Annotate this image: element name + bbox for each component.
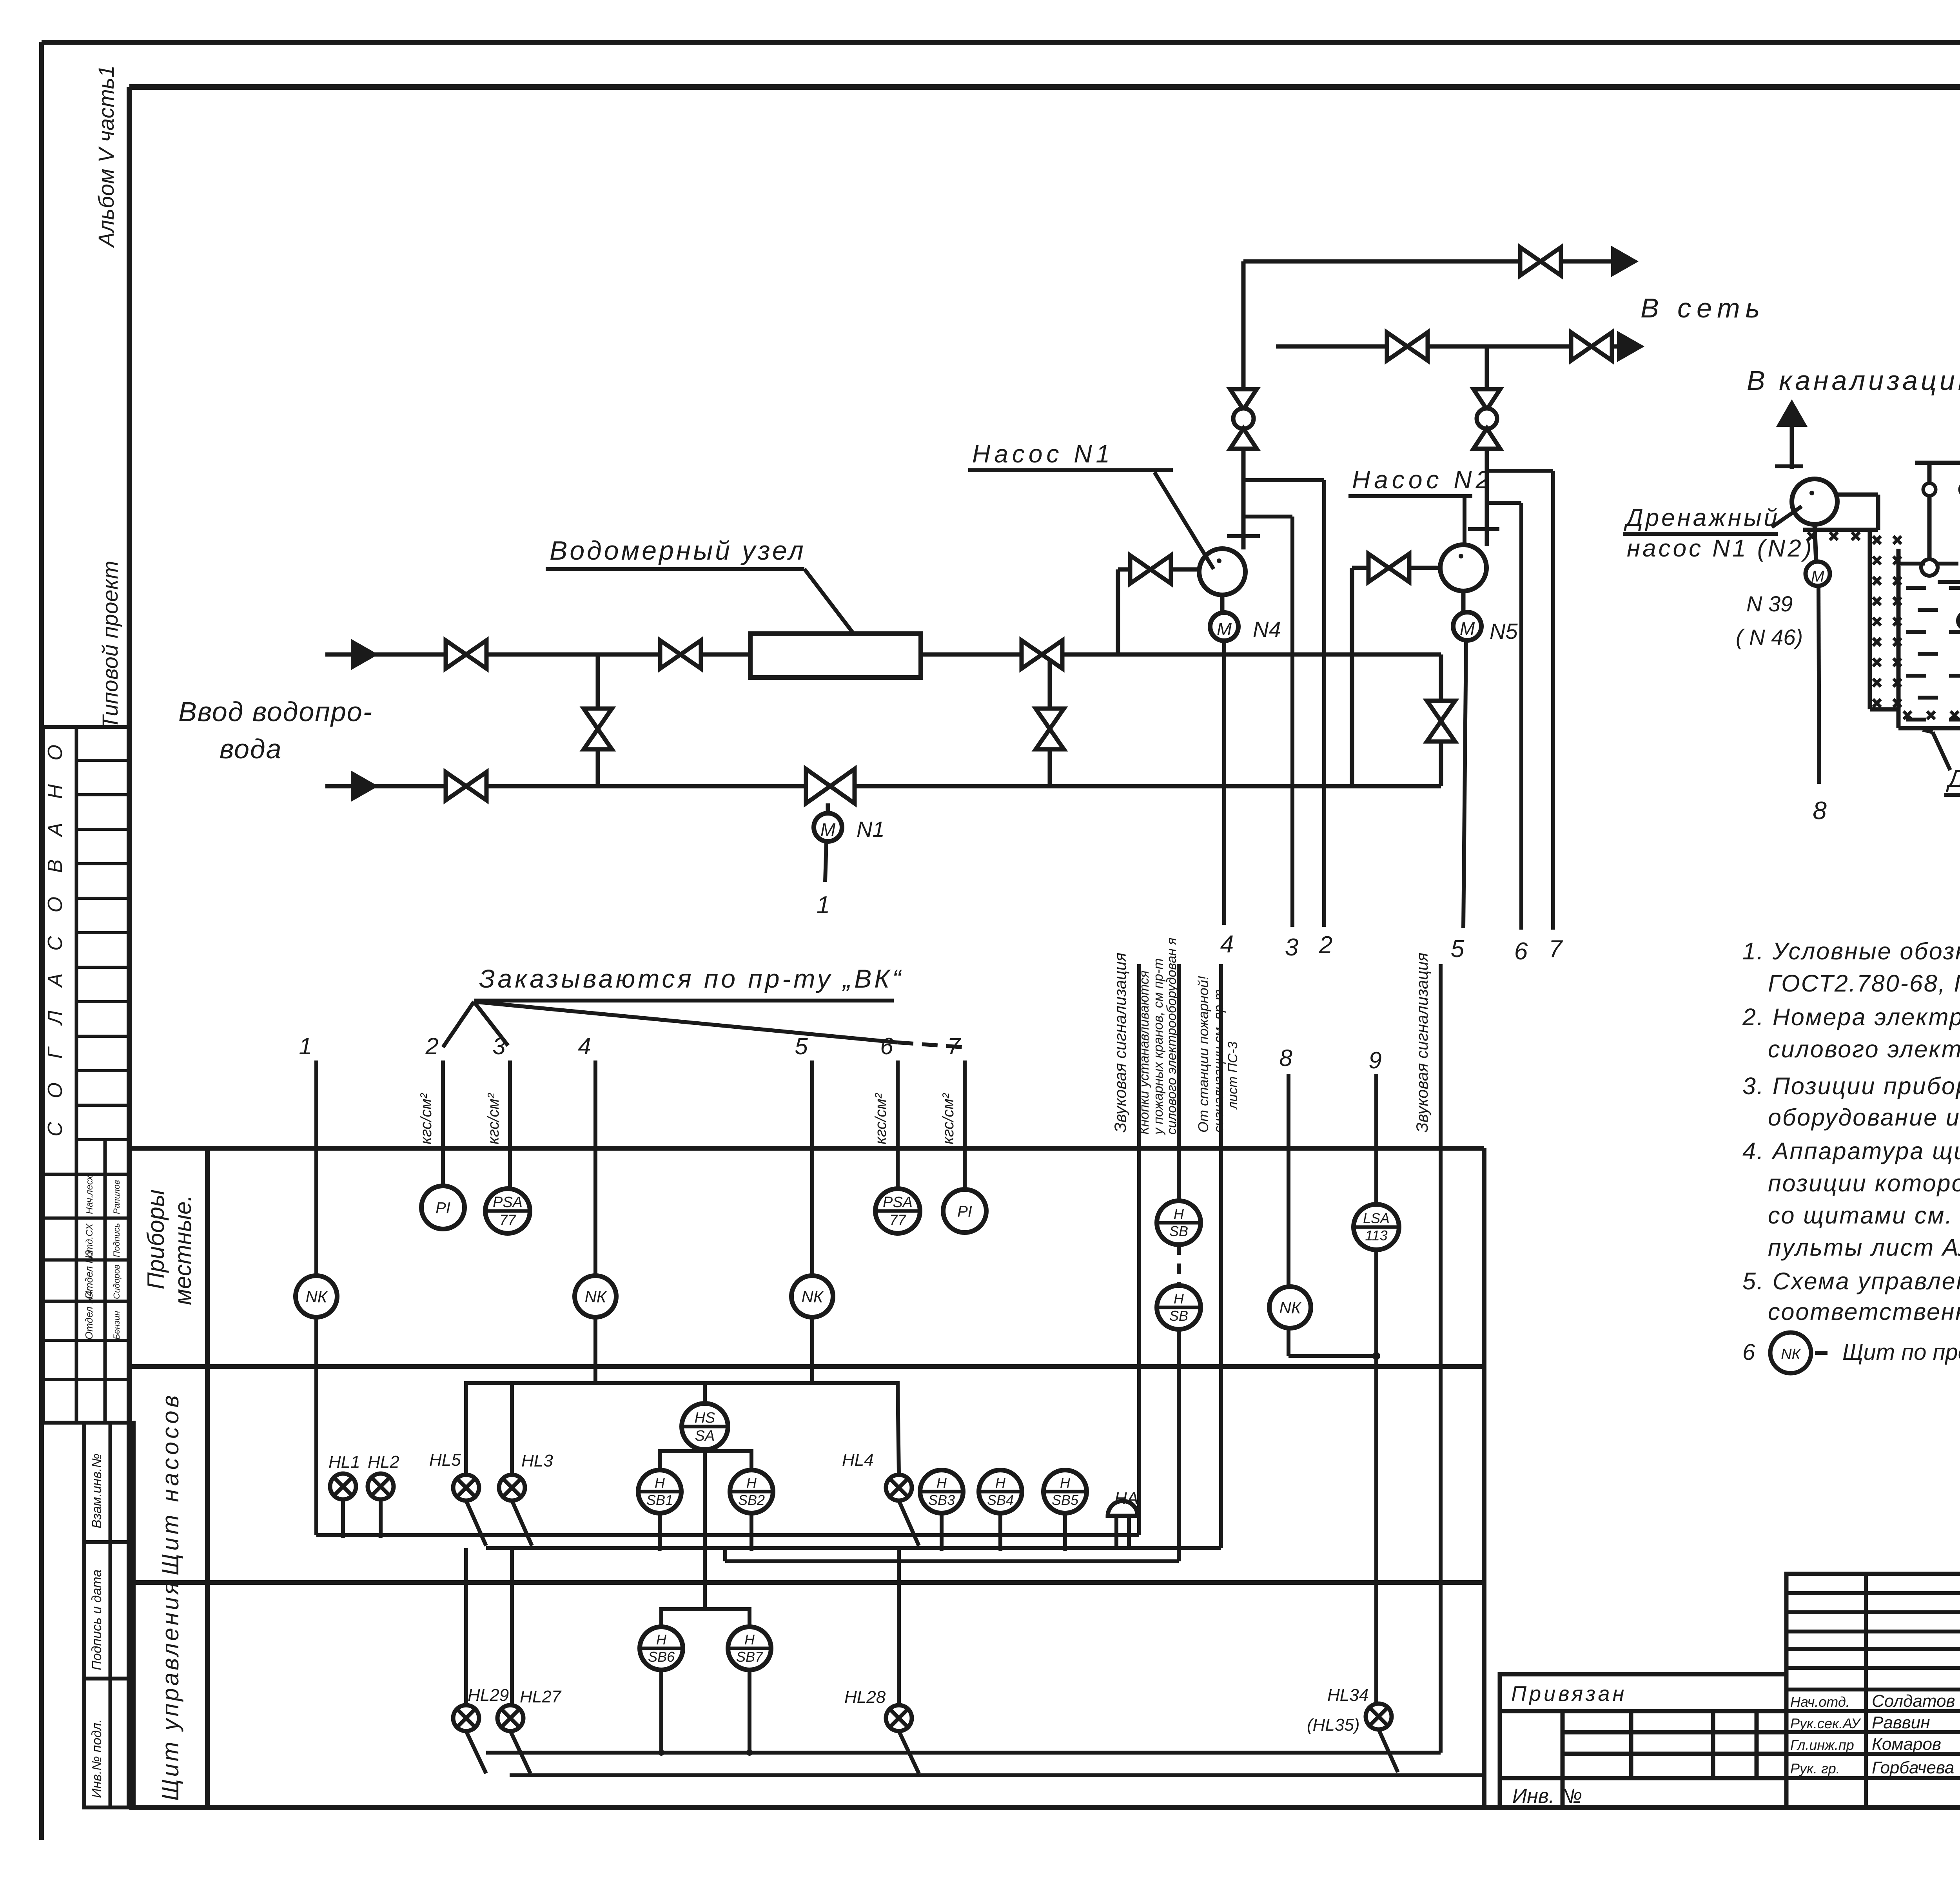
svg-text:6: 6	[1514, 938, 1528, 965]
svg-text:3: 3	[1285, 934, 1298, 961]
svg-text:Щит по проекту силового эл: Щит по проекту силового электрооборудова…	[1842, 1340, 1960, 1365]
svg-text:5. Схема управления дренажны: 5. Схема управления дренажным насосом N1…	[1742, 1268, 1960, 1294]
svg-text:кгс/см²: кгс/см²	[417, 1093, 435, 1144]
svg-text:SB4: SB4	[987, 1492, 1014, 1508]
svg-text:Сидоров: Сидоров	[112, 1265, 122, 1299]
svg-text:M: M	[1811, 568, 1824, 585]
svg-text:Солдатов: Солдатов	[1872, 1691, 1955, 1711]
svg-text:H: H	[656, 1632, 667, 1648]
svg-text:SB6: SB6	[648, 1649, 675, 1665]
svg-text:Звуковая сигнализация: Звуковая сигнализация	[1111, 953, 1129, 1133]
svg-text:Отдел N4: Отдел N4	[83, 1291, 95, 1340]
svg-text:SB7: SB7	[736, 1649, 764, 1665]
svg-text:HL34: HL34	[1327, 1686, 1368, 1705]
svg-text:3: 3	[492, 1033, 505, 1059]
svg-text:В сеть: В сеть	[1641, 293, 1765, 323]
svg-text:Насос N1: Насос N1	[972, 440, 1114, 468]
svg-text:H: H	[746, 1475, 757, 1491]
svg-text:( N 46): ( N 46)	[1736, 625, 1803, 649]
svg-text:Нач.отд.: Нач.отд.	[1790, 1694, 1850, 1710]
svg-text:LSA: LSA	[1363, 1210, 1390, 1226]
svg-text:позиции которой не указаны,: позиции которой не указаны, поставляется…	[1768, 1170, 1960, 1196]
svg-text:PSA: PSA	[883, 1194, 913, 1211]
svg-text:2. Номера электроприводов да: 2. Номера электроприводов даны в соответ…	[1742, 1004, 1960, 1030]
svg-text:SB1: SB1	[646, 1492, 673, 1508]
svg-text:Взам.инв.№: Взам.инв.№	[89, 1454, 104, 1528]
svg-text:Приборы: Приборы	[143, 1189, 169, 1289]
svg-text:4: 4	[1220, 931, 1234, 958]
svg-text:Ввод водопро-: Ввод водопро-	[178, 696, 373, 727]
svg-text:Заказываются по пр-ту „ВК“: Заказываются по пр-ту „ВК“	[479, 964, 904, 993]
svg-text:HL1: HL1	[328, 1452, 360, 1472]
svg-text:1: 1	[299, 1033, 312, 1059]
svg-text:H: H	[1060, 1475, 1071, 1491]
svg-text:со щитами см. сводную спец: со щитами см. сводную спецификацию на щи…	[1768, 1202, 1960, 1229]
svg-text:вода: вода	[220, 734, 282, 764]
svg-text:SB: SB	[1169, 1308, 1188, 1324]
svg-text:HL29: HL29	[468, 1686, 509, 1705]
svg-text:PI: PI	[957, 1203, 972, 1220]
svg-text:H: H	[1174, 1206, 1184, 1222]
svg-text:Рапилов: Рапилов	[112, 1180, 122, 1214]
svg-text:Горбачева: Горбачева	[1872, 1758, 1954, 1777]
svg-text:NК: NК	[305, 1287, 328, 1306]
svg-text:H: H	[1174, 1291, 1184, 1307]
svg-text:HL28: HL28	[844, 1688, 886, 1707]
svg-text:4: 4	[578, 1033, 591, 1059]
svg-text:В канализацию: В канализацию	[1747, 365, 1960, 396]
svg-text:M: M	[1460, 618, 1475, 639]
svg-text:кгс/см²: кгс/см²	[872, 1093, 889, 1144]
svg-text:Щит насосов: Щит насосов	[157, 1392, 183, 1575]
svg-text:силового электрооборудования: силового электрооборудования .	[1768, 1036, 1960, 1062]
svg-text:Типовой проект: Типовой проект	[98, 561, 122, 729]
svg-text:HL3: HL3	[521, 1451, 553, 1470]
svg-text:Комаров: Комаров	[1872, 1735, 1941, 1754]
svg-text:PSA: PSA	[493, 1194, 523, 1211]
svg-text:Гл.инж.пр: Гл.инж.пр	[1790, 1737, 1854, 1753]
svg-text:N5: N5	[1490, 619, 1518, 644]
svg-text:2: 2	[425, 1033, 438, 1059]
svg-text:Подпись: Подпись	[112, 1223, 122, 1257]
svg-text:Подпись и дата: Подпись и дата	[89, 1570, 104, 1670]
svg-text:SA: SA	[695, 1428, 715, 1444]
svg-text:NК: NК	[584, 1287, 607, 1306]
svg-text:N4: N4	[1253, 617, 1281, 642]
svg-text:PI: PI	[436, 1199, 450, 1216]
svg-text:3. Позиции приборов даны по: 3. Позиции приборов даны по сводной спец…	[1742, 1073, 1960, 1099]
svg-text:9: 9	[1368, 1047, 1381, 1073]
svg-text:Раввин: Раввин	[1872, 1713, 1930, 1732]
svg-text:Нач.лесх: Нач.лесх	[84, 1175, 95, 1214]
svg-text:H: H	[995, 1475, 1006, 1491]
svg-text:HL27: HL27	[520, 1687, 562, 1706]
svg-text:Альбом V часть1: Альбом V часть1	[94, 65, 118, 248]
svg-text:оборудование и материалы см: оборудование и материалы см. листы АУ-3 …	[1768, 1104, 1960, 1131]
svg-text:силового электрооборудован я: силового электрооборудован я	[1164, 937, 1179, 1135]
svg-text:H: H	[936, 1475, 947, 1491]
svg-text:77: 77	[499, 1212, 517, 1229]
svg-text:HL5: HL5	[429, 1450, 461, 1470]
svg-text:4. Аппаратура щита насосов: 4. Аппаратура щита насосов и щита управл…	[1742, 1138, 1960, 1164]
svg-text:SB2: SB2	[738, 1492, 765, 1508]
svg-text:NК: NК	[801, 1287, 824, 1306]
svg-text:1: 1	[817, 892, 830, 919]
svg-text:Привязан: Привязан	[1511, 1682, 1627, 1706]
svg-text:соответственно для дренажног: соответственно для дренажного насоса N2.	[1768, 1298, 1960, 1325]
svg-text:Инв.№ подл.: Инв.№ подл.	[89, 1719, 104, 1798]
svg-text:SB3: SB3	[928, 1492, 955, 1508]
svg-text:SB: SB	[1169, 1223, 1188, 1239]
svg-text:M: M	[820, 819, 836, 840]
svg-text:7: 7	[947, 1033, 961, 1059]
svg-text:лист ПС-3: лист ПС-3	[1225, 1042, 1240, 1110]
svg-text:8: 8	[1813, 796, 1827, 825]
svg-text:у пожарных кранов, см пр-т: у пожарных кранов, см пр-т	[1151, 958, 1166, 1135]
svg-text:Насос N2: Насос N2	[1352, 466, 1494, 494]
svg-text:5: 5	[1451, 935, 1465, 963]
svg-text:N1: N1	[857, 817, 885, 841]
svg-text:Рук. гр.: Рук. гр.	[1790, 1760, 1840, 1777]
svg-text:1. Условные обозначения даны: 1. Условные обозначения даны в соответст…	[1742, 938, 1960, 964]
svg-text:Рук.сек.АУ: Рук.сек.АУ	[1790, 1715, 1861, 1731]
svg-text:насос N1 (N2): насос N1 (N2)	[1627, 535, 1814, 562]
svg-text:SB5: SB5	[1052, 1492, 1079, 1508]
svg-text:Водомерный узел: Водомерный узел	[550, 536, 806, 566]
svg-text:77: 77	[889, 1212, 907, 1229]
svg-text:7: 7	[1549, 935, 1563, 963]
svg-text:M: M	[1217, 619, 1232, 639]
svg-text:5: 5	[795, 1033, 808, 1059]
svg-text:местные.: местные.	[170, 1195, 196, 1305]
svg-text:Щит управления: Щит управления	[157, 1580, 183, 1801]
svg-text:H: H	[655, 1475, 665, 1491]
svg-text:2: 2	[1319, 932, 1332, 959]
svg-text:Кнопки устанавливаются: Кнопки устанавливаются	[1137, 970, 1152, 1135]
svg-text:HL4: HL4	[842, 1450, 874, 1470]
svg-text:сигнализации см. пр-т: сигнализации см. пр-т	[1211, 990, 1226, 1133]
svg-text:кгс/см²: кгс/см²	[940, 1093, 957, 1144]
svg-text:HA: HA	[1114, 1489, 1138, 1508]
svg-text:NК: NК	[1781, 1346, 1801, 1363]
svg-text:От станции пожарной!: От станции пожарной!	[1195, 976, 1211, 1133]
svg-text:Инв. №: Инв. №	[1512, 1785, 1582, 1807]
svg-text:6: 6	[880, 1033, 893, 1059]
svg-text:ГОСТ2.780-68, ГОСТ 2782-68,: ГОСТ2.780-68, ГОСТ 2782-68, ГОСТ 2.784-7…	[1768, 970, 1960, 997]
svg-text:HL2: HL2	[368, 1452, 399, 1472]
svg-text:113: 113	[1365, 1227, 1387, 1244]
svg-text:Звуковая сигнализация: Звуковая сигнализация	[1413, 953, 1431, 1133]
svg-text:6: 6	[1742, 1340, 1755, 1365]
svg-text:Дренажный: Дренажный	[1624, 504, 1780, 531]
svg-text:HS: HS	[695, 1410, 715, 1426]
svg-text:кгс/см²: кгс/см²	[485, 1093, 502, 1144]
svg-text:N 39: N 39	[1746, 591, 1793, 616]
svg-text:8: 8	[1279, 1045, 1292, 1071]
svg-text:Бензин: Бензин	[112, 1311, 122, 1340]
svg-text:NК: NК	[1279, 1298, 1301, 1317]
svg-text:H: H	[744, 1632, 755, 1648]
svg-text:(HL35): (HL35)	[1307, 1715, 1360, 1735]
svg-text:пульты лист АУ-48 альбом V: пульты лист АУ-48 альбом V ч.2.	[1768, 1234, 1960, 1261]
